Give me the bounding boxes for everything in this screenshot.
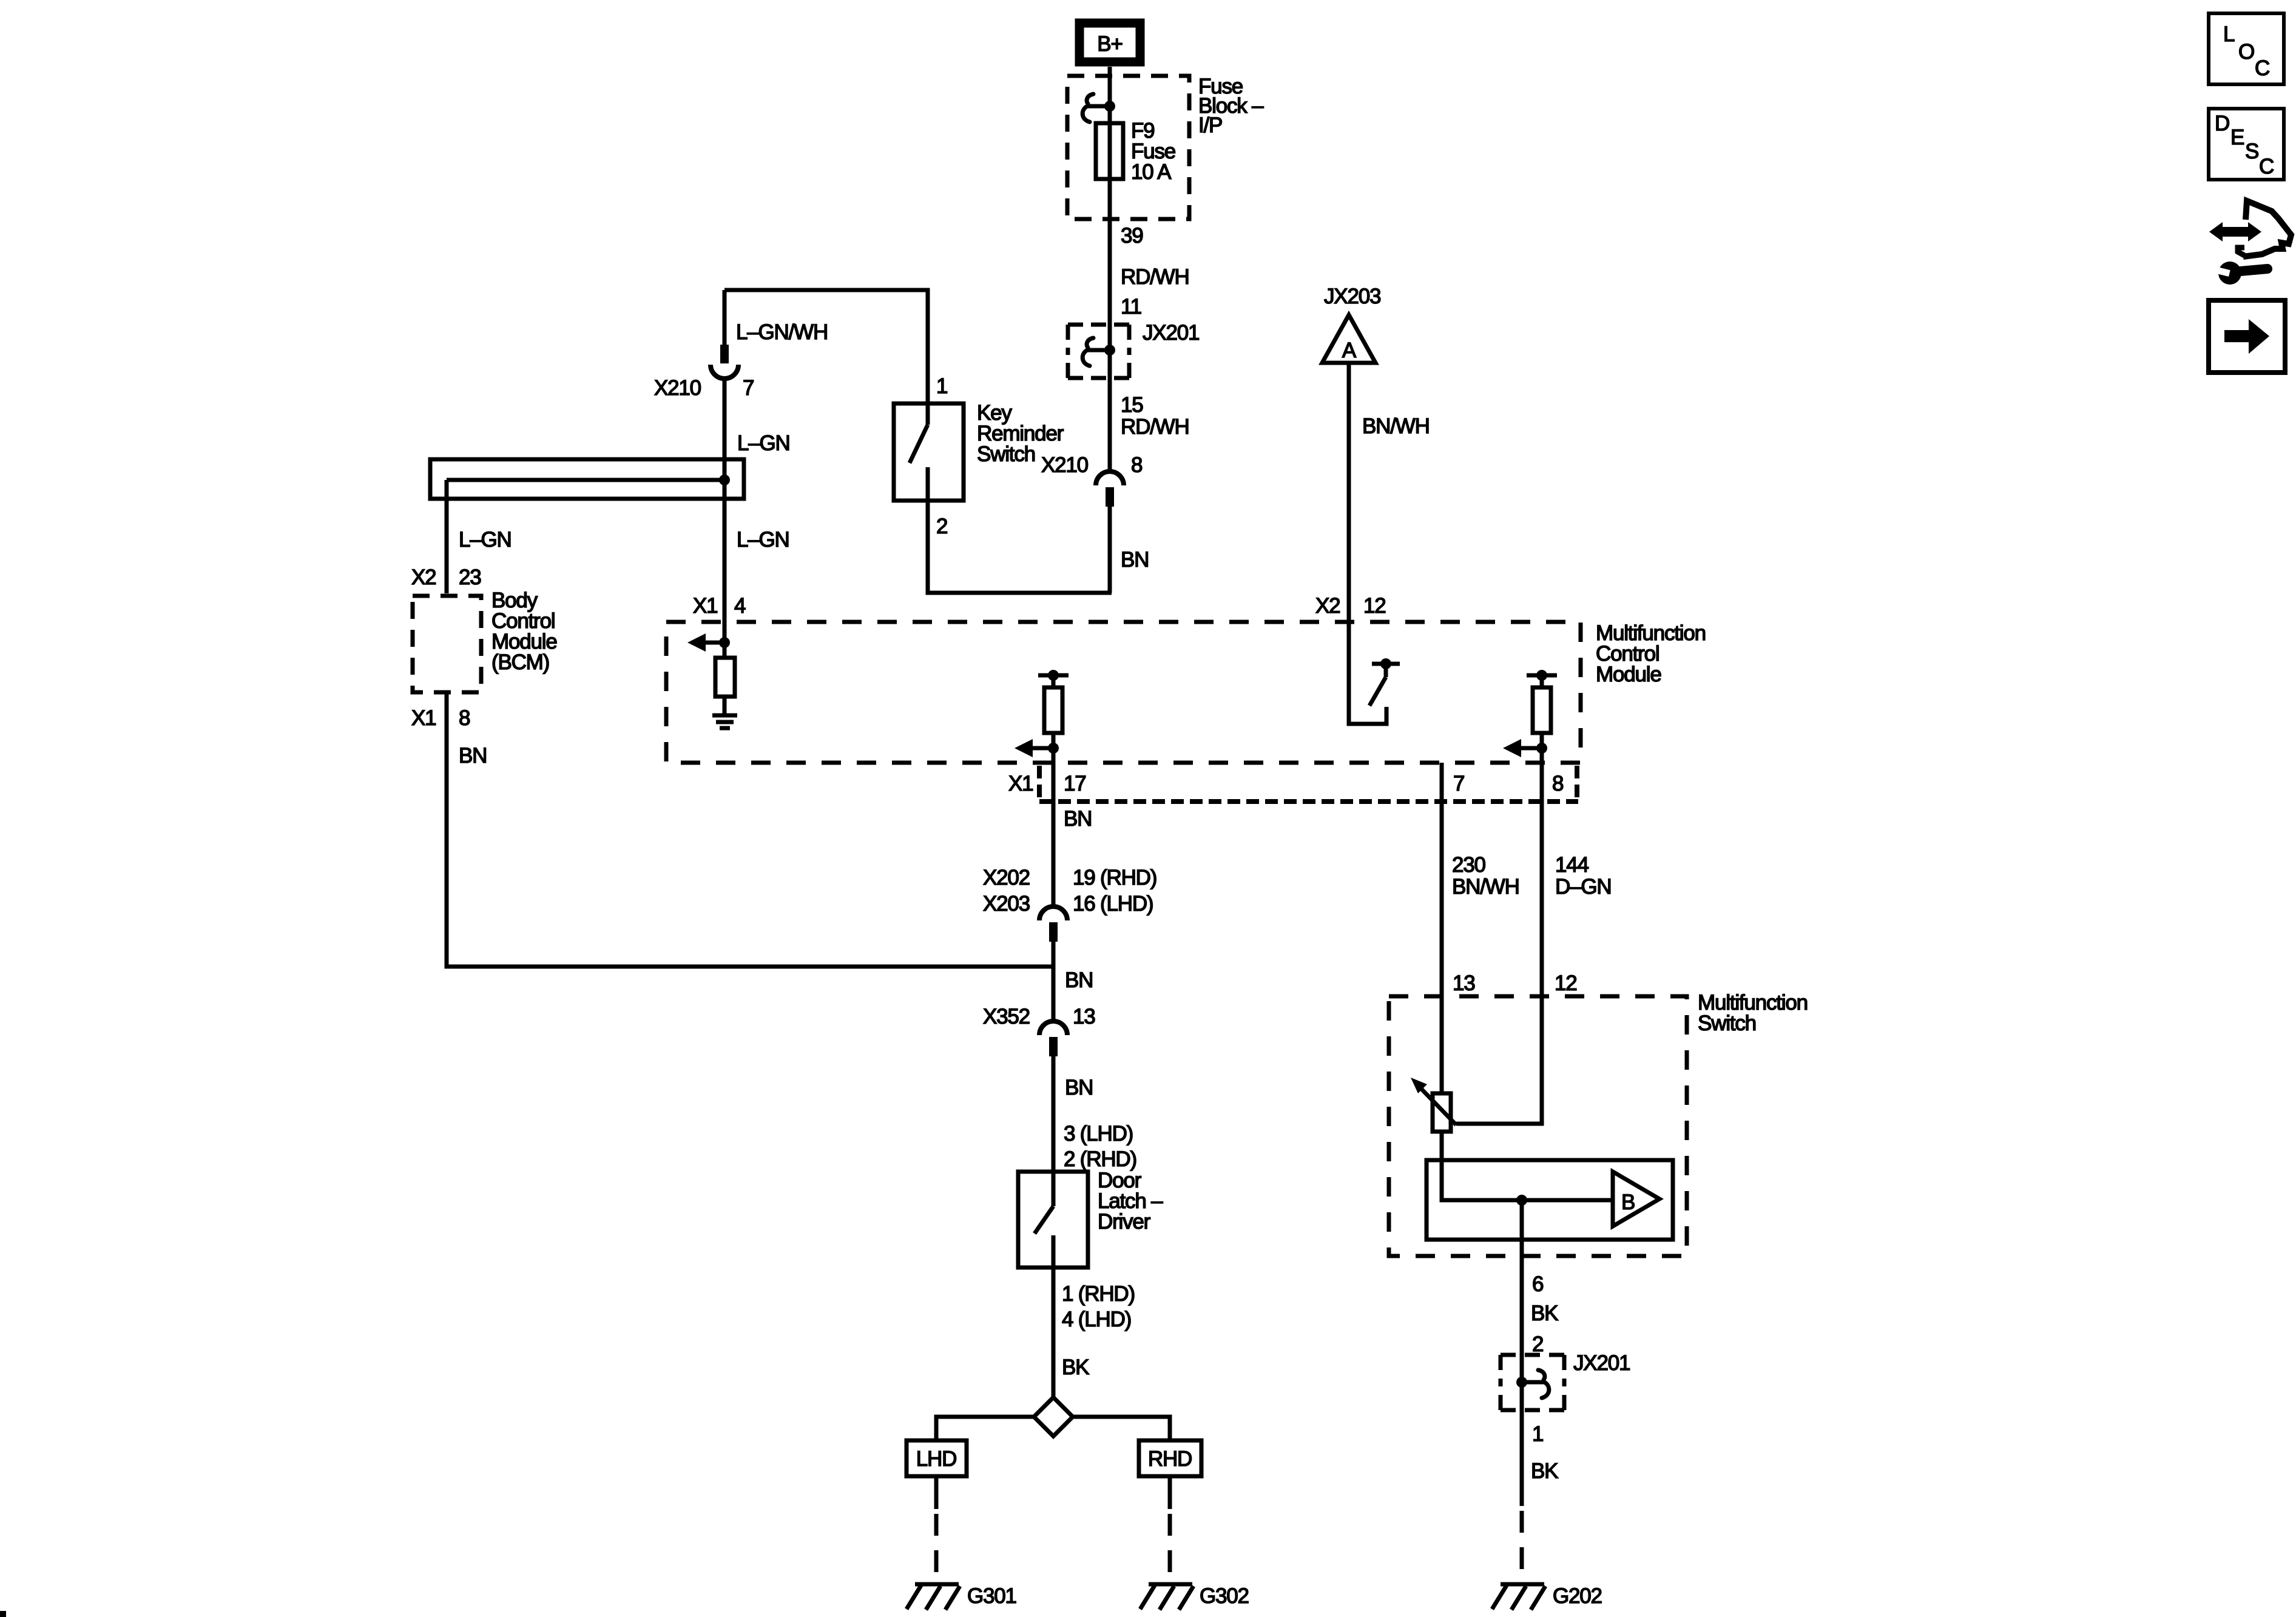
buffer triangle B bbox=[1613, 1172, 1660, 1226]
splice diamond bbox=[1034, 1397, 1073, 1436]
Body Control Module dashed box bbox=[413, 596, 481, 692]
svg-text:X2: X2 bbox=[1315, 594, 1340, 618]
re-draw L-GN wire over splice bar bbox=[723, 459, 727, 499]
svg-text:G301: G301 bbox=[967, 1584, 1016, 1608]
wire BN between connectors bbox=[1052, 942, 1056, 1023]
Door Latch - Driver box bbox=[1018, 1172, 1088, 1268]
DESC legend icon box bbox=[2209, 109, 2284, 180]
svg-text:G202: G202 bbox=[1553, 1584, 1602, 1608]
svg-text:D–GN: D–GN bbox=[1555, 875, 1611, 899]
svg-text:C: C bbox=[2255, 56, 2269, 80]
svg-text:X202: X202 bbox=[983, 866, 1030, 890]
svg-text:O: O bbox=[2238, 40, 2254, 64]
svg-text:1: 1 bbox=[936, 374, 947, 398]
svg-text:BK: BK bbox=[1531, 1459, 1558, 1483]
svg-text:7: 7 bbox=[743, 376, 754, 400]
connector X210 pin 7 labels bbox=[654, 376, 754, 400]
Door Latch - Driver label bbox=[1098, 1169, 1163, 1234]
splice pack bar bbox=[430, 459, 744, 499]
svg-text:16 (LHD): 16 (LHD) bbox=[1073, 892, 1153, 916]
svg-text:BN/WH: BN/WH bbox=[1452, 875, 1519, 899]
LHD box bbox=[907, 1440, 967, 1476]
svg-text:230: 230 bbox=[1452, 853, 1486, 877]
LOC legend icon box bbox=[2209, 13, 2284, 84]
svg-text:B+: B+ bbox=[1097, 32, 1122, 56]
svg-text:BN: BN bbox=[1064, 807, 1092, 831]
wire RHD to ground G302 bbox=[1168, 1476, 1172, 1582]
wire BN below X210/8 bbox=[1108, 507, 1112, 593]
svg-text:BK: BK bbox=[1062, 1355, 1089, 1379]
svg-text:8: 8 bbox=[1552, 772, 1563, 795]
wire BN from MCM pin 17 bbox=[1052, 763, 1056, 908]
svg-text:G302: G302 bbox=[1200, 1584, 1249, 1608]
pin X1 4 labels (MCM) bbox=[693, 594, 746, 618]
svg-text:2 (RHD): 2 (RHD) bbox=[1064, 1147, 1136, 1171]
connector X352/13 (female cup over male blade) bbox=[1039, 1021, 1067, 1056]
wire splice to LHD branch bbox=[936, 1417, 1035, 1440]
door latch output pin labels 1 (RHD) / 4 (LHD) bbox=[1062, 1282, 1135, 1331]
svg-text:BN: BN bbox=[1065, 968, 1093, 992]
wire BN/WH from JX203 to MCM X2/12 bbox=[1347, 363, 1351, 623]
svg-text:X2: X2 bbox=[411, 565, 436, 589]
BCM pin X1 8 labels bbox=[411, 706, 470, 730]
MCM internal switch (from X2/12) bbox=[1349, 623, 1400, 724]
svg-text:C: C bbox=[2259, 155, 2274, 178]
svg-text:JX201: JX201 bbox=[1143, 321, 1199, 345]
MFS pin labels 13 12 bbox=[1453, 971, 1577, 995]
JX203 take-out triangle A bbox=[1322, 315, 1376, 363]
chassis ground G202 bbox=[1492, 1584, 1545, 1610]
Fuse Block - I/P dashed box bbox=[1067, 76, 1189, 219]
BCM pin X2 23 labels bbox=[411, 565, 481, 589]
connector X352 pin 13 labels bbox=[983, 1005, 1095, 1028]
forward arrow legend icon box bbox=[2209, 300, 2285, 373]
svg-text:X1: X1 bbox=[693, 594, 717, 618]
svg-text:LHD: LHD bbox=[916, 1447, 956, 1471]
MCM signal arrow at pin 17 junction bbox=[1015, 739, 1059, 757]
connector X202/X203 (female cup over male blade) bbox=[1039, 906, 1067, 942]
svg-text:12: 12 bbox=[1363, 594, 1386, 618]
svg-text:15: 15 bbox=[1121, 393, 1143, 417]
svg-text:X1: X1 bbox=[1008, 772, 1033, 795]
svg-text:RD/WH: RD/WH bbox=[1121, 265, 1189, 289]
wire BN from BCM to central BN line bbox=[447, 692, 1053, 967]
svg-text:1 (RHD): 1 (RHD) bbox=[1062, 1282, 1135, 1306]
svg-text:4: 4 bbox=[734, 594, 746, 618]
svg-text:6: 6 bbox=[1532, 1272, 1543, 1296]
rheostat (variable resistor) in multifunction switch bbox=[1411, 1078, 1456, 1132]
wire B+ to fuse block bbox=[1108, 67, 1112, 125]
RHD box bbox=[1139, 1440, 1201, 1476]
svg-text:8: 8 bbox=[1131, 453, 1142, 477]
svg-text:RD/WH: RD/WH bbox=[1121, 415, 1189, 439]
svg-text:JX203: JX203 bbox=[1324, 285, 1380, 308]
svg-text:X203: X203 bbox=[983, 892, 1030, 916]
wire splice to BCM X2/23 bbox=[445, 480, 449, 593]
svg-text:RHD: RHD bbox=[1148, 1447, 1192, 1471]
svg-text:X352: X352 bbox=[983, 1005, 1030, 1028]
JX201 in-line splice box (top) bbox=[1068, 325, 1129, 378]
svg-text:(BCM): (BCM) bbox=[491, 650, 549, 674]
JX201 in-line splice box (bottom) bbox=[1501, 1355, 1564, 1410]
chassis ground G302 bbox=[1140, 1584, 1194, 1610]
connector X210 pin 8 labels bbox=[1041, 453, 1142, 477]
wire fuse output RD/WH bbox=[1108, 179, 1112, 473]
svg-text:X210: X210 bbox=[654, 376, 701, 400]
svg-text:Switch: Switch bbox=[1698, 1011, 1756, 1035]
earth ground symbol (MCM internal) bbox=[712, 715, 737, 728]
key reminder switch contacts bbox=[910, 403, 928, 501]
MCM internal pull-up resistor at pin 17 bbox=[1038, 670, 1069, 763]
Multifunction Control Module dashed box bbox=[666, 622, 1581, 763]
svg-text:Driver: Driver bbox=[1098, 1210, 1151, 1234]
svg-text:3 (LHD): 3 (LHD) bbox=[1064, 1122, 1133, 1146]
svg-text:13: 13 bbox=[1453, 971, 1475, 995]
svg-text:8: 8 bbox=[459, 706, 470, 730]
MCM internal pull-up resistor at pin 8 bbox=[1527, 670, 1557, 763]
svg-text:D: D bbox=[2215, 112, 2229, 135]
key reminder switch box bbox=[894, 403, 964, 501]
page corner mark bbox=[0, 1611, 6, 1617]
svg-text:39: 39 bbox=[1121, 224, 1143, 248]
connector X210/8 (female cup over male blade) bbox=[1096, 471, 1124, 507]
Multifunction Switch label bbox=[1698, 991, 1808, 1035]
svg-text:4 (LHD): 4 (LHD) bbox=[1062, 1308, 1131, 1331]
svg-text:Switch: Switch bbox=[977, 442, 1035, 466]
svg-text:L: L bbox=[2223, 22, 2235, 46]
wire BK from door latch to splice diamond bbox=[1052, 1268, 1056, 1397]
wire MFS output pin 6 BK bbox=[1520, 1200, 1524, 1355]
svg-text:A: A bbox=[1342, 339, 1357, 362]
Fuse Block - I/P label bbox=[1198, 75, 1264, 137]
svg-text:17: 17 bbox=[1064, 772, 1086, 795]
svg-text:12: 12 bbox=[1555, 971, 1577, 995]
svg-text:BN: BN bbox=[1065, 1076, 1093, 1099]
diagnostic icon: double arrow bbox=[2209, 222, 2261, 241]
svg-text:JX201: JX201 bbox=[1573, 1351, 1630, 1375]
svg-text:7: 7 bbox=[1453, 772, 1464, 795]
MCM connector face dotted bracket bbox=[1039, 766, 1578, 802]
svg-text:BK: BK bbox=[1531, 1301, 1558, 1325]
svg-text:144: 144 bbox=[1555, 853, 1589, 877]
fuse block internal junction with curl tap bbox=[1082, 94, 1115, 122]
wire L-GN/WH from X210/7 to key switch pin 1 bbox=[724, 290, 928, 403]
wire LHD to ground G301 bbox=[934, 1476, 939, 1582]
svg-text:10 A: 10 A bbox=[1131, 160, 1172, 184]
svg-text:BN: BN bbox=[459, 744, 487, 768]
svg-text:1: 1 bbox=[1532, 1422, 1543, 1446]
svg-text:L–GN/WH: L–GN/WH bbox=[736, 320, 828, 344]
Multifunction Control Module label bbox=[1596, 621, 1706, 686]
Multifunction Switch dashed box bbox=[1389, 996, 1687, 1256]
connector X210/7 (male blade into female cup) bbox=[711, 290, 738, 379]
svg-text:19 (RHD): 19 (RHD) bbox=[1073, 866, 1156, 890]
wire splice to RHD branch bbox=[1072, 1417, 1170, 1440]
door latch switch contacts bbox=[1035, 1172, 1053, 1268]
MCM signal arrow at pin 8 junction bbox=[1503, 739, 1547, 757]
svg-text:B: B bbox=[1621, 1190, 1635, 1214]
svg-text:BN: BN bbox=[1121, 548, 1149, 572]
svg-text:I/P: I/P bbox=[1198, 113, 1222, 137]
wire D-GN circuit 144 from MCM pin 8 bbox=[1456, 763, 1542, 1124]
buffer output junction dot bbox=[1516, 1195, 1527, 1206]
diagnostic icon: wrench bbox=[2209, 262, 2267, 285]
MCM X1/4 internal: junction, signal arrow, resistor, ground bbox=[687, 633, 735, 714]
JX201 junction with curl tap bbox=[1082, 338, 1115, 366]
door latch pin labels 3 (LHD) / 2 (RHD) bbox=[1064, 1122, 1136, 1171]
wire labels 230 BN/WH bbox=[1452, 853, 1519, 899]
JX201 bottom junction with curl tap bbox=[1516, 1370, 1549, 1398]
svg-text:X1: X1 bbox=[411, 706, 436, 730]
svg-text:L–GN: L–GN bbox=[737, 528, 789, 552]
Key Reminder Switch label bbox=[977, 401, 1064, 466]
svg-text:BN/WH: BN/WH bbox=[1362, 414, 1430, 438]
svg-text:L–GN: L–GN bbox=[737, 431, 790, 455]
svg-text:23: 23 bbox=[459, 565, 481, 589]
svg-text:S: S bbox=[2245, 140, 2258, 163]
svg-text:13: 13 bbox=[1073, 1005, 1095, 1028]
wire key switch pin2 to BN line bbox=[928, 501, 1112, 593]
wire BN to door latch bbox=[1052, 1056, 1056, 1172]
chassis ground G301 bbox=[907, 1584, 960, 1610]
wire BK to ground G202 bbox=[1520, 1353, 1524, 1582]
inner amplifier box bbox=[1427, 1160, 1673, 1240]
MCM pin labels X1 17 7 8 bbox=[1008, 772, 1563, 795]
fuse F9 10 A bbox=[1096, 106, 1123, 181]
wire rheostat to buffer input bbox=[1442, 1132, 1613, 1200]
svg-text:Module: Module bbox=[1596, 663, 1661, 686]
B+ battery feed symbol bbox=[1079, 23, 1140, 62]
fuse labels F9 / Fuse / 10 A bbox=[1131, 119, 1175, 184]
svg-text:E: E bbox=[2230, 126, 2244, 149]
svg-text:X210: X210 bbox=[1041, 453, 1089, 477]
diagnostic icon: component outline bbox=[2238, 201, 2291, 257]
wire BN/WH circuit 230 from MCM pin 7 bbox=[1440, 763, 1444, 1093]
Body Control Module (BCM) label bbox=[491, 589, 557, 674]
svg-text:11: 11 bbox=[1121, 295, 1141, 319]
svg-text:2: 2 bbox=[1532, 1332, 1543, 1356]
wire labels 144 D-GN bbox=[1555, 853, 1611, 899]
connector X202/X203 labels bbox=[983, 866, 1156, 916]
MCM pin X2 12 labels bbox=[1315, 594, 1386, 618]
svg-text:L–GN: L–GN bbox=[459, 528, 512, 552]
wire L-GN vertical through splice bbox=[723, 377, 727, 643]
svg-text:2: 2 bbox=[936, 515, 947, 538]
